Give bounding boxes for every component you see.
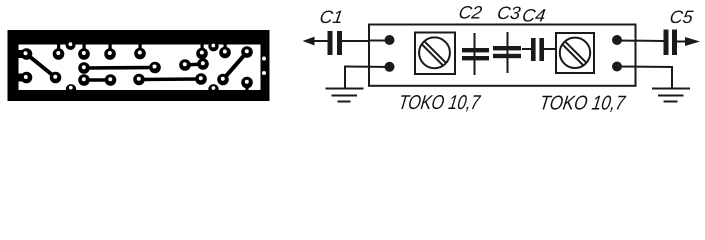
PCB copper-side layout (left) [8,30,270,101]
wire ground drop right [671,66,673,89]
wire into top-left junction [370,40,388,42]
ground symbol left [326,88,364,90]
capacitor C3 lead [507,32,509,73]
wire lower-left horizontal [345,66,388,69]
trace lower-left horizontal [84,78,111,82]
svg-text:TOKO 10,7: TOKO 10,7 [397,92,482,114]
wire C3 to C4 [522,48,531,50]
svg-text:C3: C3 [496,3,522,23]
svg-text:C5: C5 [668,7,695,27]
wire top-right to C5 [618,40,664,43]
schematic (right) [303,25,701,102]
pad embedded in top rail (x=70.5) [66,40,76,50]
capacitor C1 [328,31,343,55]
capacitor C3 plates [493,46,521,58]
wire ground drop left [344,66,346,89]
pad embedded in bottom rail (x=71) [66,84,76,94]
capacitor C2 plates [462,48,489,60]
pad end of diagonal [50,72,62,84]
PCB frame [8,30,270,101]
pad t6 [224,43,227,50]
node: junction dot top-left [385,35,395,45]
svg-text:C4: C4 [521,6,547,26]
pad with stub to bottom rail [245,84,248,91]
capacitor C2 lead [474,33,476,75]
filter U1 TOKO square [415,33,455,75]
node: junction dot bottom-right [612,62,622,72]
wire C5 to arrow [677,41,686,43]
trace long horizontal [139,77,201,81]
filter U2 circle [560,38,590,68]
wire arrow to C1 [308,40,328,42]
PCB pad row: top hanging pads [53,43,231,60]
filter U1 circle [419,37,450,68]
pad t4 [139,43,142,50]
wire C1 to box [342,40,370,42]
filter block enclosure [369,25,636,86]
trace D horizontal [84,66,155,70]
pad t5 [201,43,204,50]
wire C4 to U2 [544,48,556,50]
filter U2 TOKO square [556,33,594,73]
filter U1 slot [425,42,446,63]
pad embedded in top rail (x=213.5) [208,41,218,51]
wire bottom-right out of box [618,66,672,69]
pad embedded in bottom rail (x=213.5) [208,84,218,94]
pad t3 [109,43,112,50]
capacitor C5 plates [664,30,678,56]
pad t2 [83,43,86,50]
holes in right rail [262,57,266,61]
pad t1 [57,43,60,50]
filter U2 slot [566,42,587,63]
ground symbol right [652,88,690,90]
trace: diagonal pad(25,54) to pad(55.5,77.5) [27,54,56,78]
trace E horizontal [185,64,203,65]
capacitor C4 plates [531,38,544,61]
node: junction dot bottom-left [385,62,395,72]
node: junction dot top-right [612,35,622,45]
pad holes (white) [24,49,267,83]
svg-text:C2: C2 [457,3,483,23]
pad on left rail (lower) [17,74,25,82]
output terminal arrow [685,37,700,46]
svg-text:C1: C1 [318,7,344,27]
trace: diagonal pad(223,79.5) to pad(247,52) [223,52,247,80]
input terminal arrow [303,37,315,46]
pad on left rail (upper) [17,50,25,58]
svg-text:TOKO 10,7: TOKO 10,7 [538,93,627,115]
